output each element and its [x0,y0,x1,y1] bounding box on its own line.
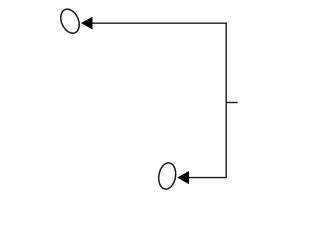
wire: top horizontal segment [92,22,227,24]
node A: top-left ellipse [57,6,83,36]
node B: bottom ellipse [157,162,178,191]
wire: right vertical segment [225,23,227,178]
tick stub on vertical wire [226,102,238,104]
arrowhead into node A [81,17,93,30]
arrowhead into node B [177,171,189,184]
wire: bottom horizontal segment [189,177,227,179]
